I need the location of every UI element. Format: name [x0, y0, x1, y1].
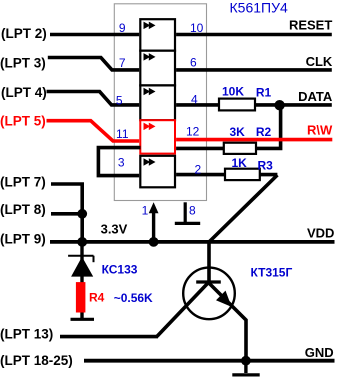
svg-text:5: 5 — [116, 93, 123, 107]
node emitter-GND junction — [241, 356, 251, 366]
wire pin 6 to CLK — [176, 68, 332, 72]
svg-text:10: 10 — [190, 21, 204, 35]
wire LPT2 to pin 9 — [50, 33, 139, 37]
svg-text:DATA: DATA — [298, 89, 333, 104]
svg-text:(LPT 18-25): (LPT 18-25) — [0, 353, 73, 368]
transistor emitter lead — [209, 283, 246, 360]
svg-text:R1: R1 — [256, 85, 272, 99]
svg-text:~0.56K: ~0.56K — [114, 291, 153, 305]
svg-text:(LPT 7): (LPT 7) — [0, 174, 46, 189]
svg-text:R\W: R\W — [307, 122, 333, 137]
transistor base lead diagonal — [157, 283, 208, 337]
wire pin 12 to R\W (red) — [176, 138, 332, 142]
svg-text:КС133: КС133 — [102, 263, 138, 277]
wire R3 diagonal to collector — [209, 175, 277, 281]
svg-text:КТ315Г: КТ315Г — [251, 265, 293, 279]
transistor base bar — [196, 280, 221, 283]
transistor emitter arrow — [216, 291, 232, 307]
buffer U1d box (red) — [140, 120, 175, 153]
svg-text:CLK: CLK — [306, 54, 333, 69]
R4 bottom bar — [71, 318, 95, 321]
wire pin 12 R2 lead — [176, 105, 281, 148]
svg-text:R2: R2 — [256, 125, 272, 139]
svg-text:К561ПУ4: К561ПУ4 — [230, 0, 288, 15]
svg-text:(LPT 4): (LPT 4) — [1, 85, 47, 100]
svg-text:RESET: RESET — [289, 18, 332, 33]
svg-text:9: 9 — [119, 21, 126, 35]
resistor R1 — [219, 99, 255, 111]
svg-text:(LPT 8): (LPT 8) — [0, 202, 46, 217]
transistor Q1 КТ315Г circle — [183, 268, 235, 320]
svg-text:3: 3 — [118, 155, 125, 169]
buffer U1b box — [140, 51, 175, 86]
svg-text:R3: R3 — [258, 158, 274, 172]
buffer U1e box — [140, 156, 175, 188]
pin 8 ground — [184, 202, 187, 222]
svg-text:10K: 10K — [222, 85, 244, 99]
svg-text:(LPT 5): (LPT 5) — [0, 113, 46, 128]
zener diode VD1 КС133 — [80, 242, 83, 283]
wire LPT4 to pin 5 — [47, 92, 140, 105]
wire LPT3 to pin 7 — [48, 58, 139, 70]
svg-text:(LPT 13): (LPT 13) — [0, 327, 53, 342]
wire pin 3 input loop — [98, 148, 140, 176]
svg-text:1K: 1K — [232, 156, 248, 170]
svg-text:(LPT 9): (LPT 9) — [0, 231, 46, 246]
svg-text:GND: GND — [305, 345, 334, 360]
wire pin 10 to RESET — [176, 33, 332, 37]
buffer U1d symbol (red) — [144, 123, 156, 131]
wire pin 2 to R3 — [176, 173, 277, 177]
svg-text:(LPT 3): (LPT 3) — [0, 55, 46, 70]
svg-text:VDD: VDD — [307, 225, 334, 240]
svg-text:7: 7 — [119, 56, 126, 70]
resistor R3 — [225, 169, 260, 180]
svg-text:11: 11 — [116, 127, 129, 141]
node VDD-zener junction — [77, 237, 87, 247]
wire VDD line — [50, 240, 335, 244]
pin 1 arrow to VDD — [152, 213, 155, 242]
svg-text:3K: 3K — [230, 125, 246, 139]
wire GND line — [84, 359, 335, 363]
wire LPT7 — [51, 184, 82, 242]
buffer U1e symbol — [144, 158, 156, 166]
node VDD-pin1 junction — [149, 237, 159, 247]
resistor R2 — [224, 143, 256, 154]
IC U1 outline — [114, 4, 206, 201]
node DATA junction — [274, 100, 284, 110]
buffer U1a box — [140, 19, 175, 51]
wire LPT8 — [51, 212, 82, 216]
wire LPT13 — [60, 335, 158, 339]
svg-text:(LPT 2): (LPT 2) — [1, 26, 47, 41]
buffer U1a symbol — [144, 22, 156, 30]
wire LPT5 to pin 11 (red) — [47, 121, 140, 141]
svg-text:6: 6 — [190, 56, 197, 70]
node LPT8 junction — [77, 209, 87, 219]
svg-text:3.3V: 3.3V — [101, 221, 128, 236]
buffer U1b symbol — [144, 53, 156, 61]
svg-text:4: 4 — [191, 93, 198, 107]
buffer U1c box — [140, 85, 175, 120]
ground symbol below GND — [244, 361, 247, 373]
svg-text:12: 12 — [186, 125, 200, 139]
svg-text:R4: R4 — [89, 291, 105, 305]
wire pin 4 through R1 to DATA — [176, 103, 332, 107]
resistor R4 (red body) — [76, 282, 86, 312]
svg-text:1: 1 — [142, 203, 149, 217]
svg-text:2: 2 — [195, 162, 202, 176]
svg-text:8: 8 — [189, 203, 196, 217]
buffer U1c symbol — [144, 88, 156, 96]
